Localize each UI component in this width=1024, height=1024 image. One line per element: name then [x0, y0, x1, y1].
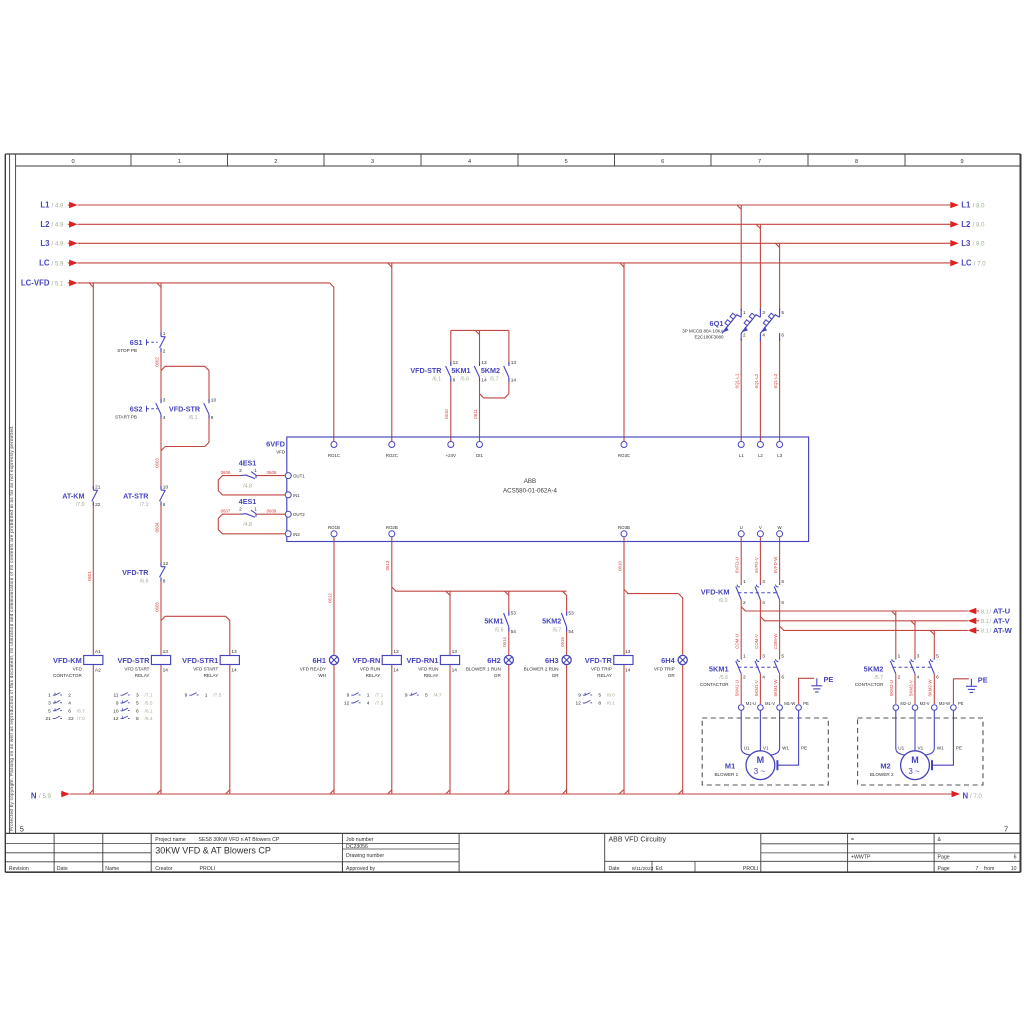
svg-text:L3: L3: [777, 453, 782, 458]
relay coil VFD-STR1: [220, 656, 239, 665]
svg-text:M1-V: M1-V: [765, 701, 775, 706]
wire LC-VFD to 6S1: [160, 283, 162, 336]
wire VFD-KM coil A2 to N: [92, 665, 94, 795]
wire rail L1: [78, 204, 951, 206]
svg-text:4: 4: [68, 701, 71, 707]
svg-text:/6.1: /6.1: [189, 415, 198, 421]
switch VFD-KM pole 1-2: [740, 584, 742, 586]
svg-text:E2C100F3080: E2C100F3080: [694, 335, 724, 340]
svg-text:6: 6: [211, 415, 214, 421]
wire junction to VFD-STR coil: [160, 621, 162, 656]
svg-text:Protected by copyright. Passin: Protected by copyright. Passing on as we…: [9, 425, 14, 831]
svg-text:A1: A1: [95, 649, 101, 655]
wire 6H4 to N: [682, 665, 684, 795]
svg-text:5.9: 5.9: [43, 794, 52, 800]
svg-text:Approved by: Approved by: [346, 866, 376, 872]
wire run-relay feeder rail: [392, 587, 396, 591]
wire rail L3: [78, 242, 951, 244]
junction LC-VFD to 6S1 branch: [157, 283, 161, 287]
wire parallel loop top to VFD-STR aux: [161, 366, 209, 402]
svg-text:7: 7: [1004, 825, 1008, 834]
svg-text:IN2: IN2: [293, 532, 300, 537]
svg-text:2: 2: [743, 333, 746, 339]
svg-text:9: 9: [405, 693, 408, 699]
pin L1 terminal: [738, 442, 744, 448]
svg-text:14: 14: [511, 377, 517, 383]
svg-text:3: 3: [163, 397, 166, 403]
svg-text:RO1B: RO1B: [328, 525, 340, 530]
wire RO2C from LC: [391, 263, 393, 441]
svg-text:Job number: Job number: [346, 837, 374, 843]
wire RO3C from LC: [623, 263, 625, 441]
svg-text:0601: 0601: [87, 571, 92, 581]
svg-text:/7.1: /7.1: [375, 693, 383, 699]
svg-text:SES8 30KW VFD n AT Blowers CP: SES8 30KW VFD n AT Blowers CP: [199, 837, 280, 843]
svg-text:N: N: [31, 792, 37, 801]
svg-text:L2: L2: [758, 453, 763, 458]
wire AT-V to 5KM2 contact: [914, 621, 916, 658]
svg-text:RO2B: RO2B: [386, 525, 398, 530]
svg-text:8.1: 8.1: [981, 609, 989, 615]
switch 6S2 start pushbutton: [160, 399, 162, 403]
svg-text:5: 5: [48, 708, 51, 714]
svg-text:13: 13: [231, 649, 237, 655]
svg-text:6VFD-V: 6VFD-V: [754, 557, 759, 573]
svg-text:10: 10: [163, 484, 169, 490]
svg-text:COM-V: COM-V: [754, 634, 759, 649]
switch 5KM2 pole 1-2: [895, 658, 897, 660]
wire 0603 loop to AT-STR: [160, 447, 162, 490]
svg-text:Project name: Project name: [155, 837, 186, 843]
svg-text:M2: M2: [880, 761, 890, 770]
svg-text:VFD: VFD: [276, 449, 285, 454]
svg-text:A2: A2: [95, 667, 101, 673]
svg-text:VFD-TR: VFD-TR: [122, 568, 149, 577]
svg-text:14: 14: [452, 667, 458, 673]
svg-text:/4.8: /4.8: [243, 484, 252, 490]
wire 6Q1-L2 rail to breaker: [759, 224, 761, 311]
svg-text:Creator: Creator: [155, 866, 173, 872]
svg-text:/7.1: /7.1: [140, 502, 149, 508]
svg-text:53: 53: [511, 611, 517, 617]
wire 0616 RO3B down: [623, 537, 625, 656]
svg-text:RELAY: RELAY: [424, 673, 439, 678]
wire motor M1 W1: [771, 710, 780, 755]
svg-text:RELAY: RELAY: [366, 673, 381, 678]
svg-text:M1-W: M1-W: [784, 701, 795, 706]
wire 0601 AT-KM to VFD-KM coil A1: [92, 503, 94, 656]
svg-text:6: 6: [781, 333, 784, 339]
node L1 right arrow: [950, 202, 959, 209]
svg-text:4: 4: [762, 600, 765, 606]
svg-text:8.0: 8.0: [976, 203, 985, 209]
wire 0604 AT-STR to VFD-TR contact: [160, 503, 162, 566]
wire AT-W line: [783, 629, 968, 631]
svg-text:VFD-STR: VFD-STR: [410, 366, 442, 375]
wire 0614 5KM1 54 to 6H2: [508, 628, 510, 656]
svg-text:0611: 0611: [473, 409, 478, 419]
svg-text:L2: L2: [961, 220, 971, 229]
wire 6VFD-U ABB U to VFD-KM contact: [740, 537, 742, 584]
wire branch RO3B to 6H4: [624, 589, 628, 593]
svg-text:9: 9: [578, 693, 581, 699]
svg-text:3 ~: 3 ~: [754, 767, 766, 776]
wire VFD-RN coil to N: [391, 665, 393, 795]
svg-text:54: 54: [568, 629, 574, 635]
pin RO2B terminal: [389, 531, 395, 537]
wire 4ES1 loop first: [256, 475, 285, 477]
motor M1 enclosure box: [702, 718, 828, 785]
svg-text:21: 21: [95, 484, 101, 490]
wire 6Q1-L3 breaker to ABB L3: [779, 339, 781, 442]
svg-text:4.9: 4.9: [55, 223, 64, 229]
svg-text:5: 5: [425, 693, 428, 699]
svg-text:VFD-KM: VFD-KM: [701, 588, 730, 597]
junction AT-U to 5KM2: [892, 611, 896, 615]
svg-text:1: 1: [898, 654, 901, 660]
svg-text:53: 53: [568, 611, 574, 617]
junction L2 to 6Q1: [756, 224, 760, 228]
junction N rail: [89, 790, 93, 794]
svg-text:6: 6: [68, 708, 71, 714]
wire motor M2 W1: [925, 710, 934, 755]
svg-text:6VFD-U: 6VFD-U: [735, 557, 740, 573]
svg-text:4: 4: [163, 415, 166, 421]
svg-text:5: 5: [598, 693, 601, 699]
wire 5KM1-W 5KM1 contact to terminal M1-W: [779, 674, 781, 704]
svg-text:U1: U1: [744, 746, 750, 751]
svg-text:0613: 0613: [385, 560, 390, 570]
svg-text:5KM1-V: 5KM1-V: [754, 680, 759, 696]
lamp 6H3: [562, 655, 571, 664]
svg-text:5: 5: [781, 579, 784, 585]
wire 5KM1-U 5KM1 contact to terminal M1-U: [740, 674, 742, 704]
wire DI1 to 5KM1 contact: [479, 379, 481, 398]
wire 5KM2 parallel branch: [508, 330, 510, 364]
svg-text:14: 14: [393, 667, 399, 673]
svg-text:6Q1-L1: 6Q1-L1: [735, 373, 740, 388]
svg-text:Revision: Revision: [9, 866, 29, 872]
svg-text:COM-U: COM-U: [735, 634, 740, 649]
svg-text:3: 3: [48, 701, 51, 707]
svg-text:ACS580-01-062A-4: ACS580-01-062A-4: [503, 488, 558, 495]
junction N rail: [505, 790, 509, 794]
svg-text:+24V: +24V: [446, 453, 456, 458]
switch 5KM2 53-54: [566, 612, 568, 616]
svg-text:COM-W: COM-W: [773, 633, 778, 650]
svg-text:/6.6: /6.6: [140, 578, 149, 584]
svg-text:LC-VFD: LC-VFD: [21, 279, 50, 288]
pin L2 terminal: [757, 442, 763, 448]
node terminals M1: [738, 705, 744, 711]
wire COM-U VFD-KM to 5KM1 contact: [740, 600, 742, 658]
wire PE1 to ground: [799, 678, 814, 704]
svg-text:8/11/2023: 8/11/2023: [632, 866, 654, 872]
junction L1 to 6Q1: [737, 205, 741, 209]
svg-text:4.9: 4.9: [55, 242, 64, 248]
svg-text:/6.1: /6.1: [607, 701, 615, 707]
svg-text:/5.6: /5.6: [719, 675, 728, 681]
switch VFD-KM pole 3-4: [759, 584, 761, 586]
svg-text:PE: PE: [978, 676, 988, 685]
junction N rail: [388, 790, 392, 794]
copyright margin strip: [9, 154, 11, 833]
wire 6H2 to N: [508, 665, 510, 795]
svg-text:6Q1: 6Q1: [710, 319, 724, 328]
svg-text:5: 5: [781, 654, 784, 660]
junction AT-V to 5KM2: [911, 621, 915, 625]
svg-text:14: 14: [481, 377, 487, 383]
svg-text:5: 5: [781, 310, 784, 316]
svg-text:M2-V: M2-V: [920, 701, 930, 706]
svg-text:CONTACTOR: CONTACTOR: [53, 673, 82, 678]
wire 0605 VFD-TR contact to junction: [160, 579, 162, 621]
svg-text:8.1: 8.1: [981, 629, 989, 635]
junction AT-U tap: [741, 607, 745, 611]
svg-text:M: M: [911, 755, 919, 765]
svg-text:9: 9: [347, 693, 350, 699]
wire motor M2 V1: [914, 710, 916, 751]
svg-text:BLOWER 1: BLOWER 1: [714, 772, 738, 777]
svg-text:/9.0: /9.0: [607, 693, 615, 699]
svg-text:ABB VFD Circuitry: ABB VFD Circuitry: [609, 837, 667, 844]
junction N rail: [157, 790, 161, 794]
svg-text:8.1: 8.1: [981, 619, 989, 625]
svg-text:1: 1: [178, 159, 181, 165]
relay coil VFD-TR: [614, 656, 633, 665]
svg-text:3: 3: [762, 654, 765, 660]
svg-text:3 ~: 3 ~: [908, 767, 920, 776]
svg-text:0612: 0612: [327, 593, 332, 603]
svg-text:6: 6: [1014, 855, 1017, 861]
junction AT-V tap: [760, 617, 764, 621]
wire AT-U line: [745, 610, 968, 612]
wire feeder to 5KM1 53 contact: [508, 591, 510, 614]
wire motor M2 U1: [896, 710, 905, 755]
svg-text:AT-STR: AT-STR: [123, 492, 149, 501]
svg-text:5KM2-V: 5KM2-V: [908, 680, 913, 696]
svg-text:/5.5: /5.5: [145, 701, 153, 707]
svg-text:7.0: 7.0: [974, 794, 983, 800]
svg-text:OR: OR: [668, 673, 676, 678]
svg-text:7.0: 7.0: [977, 261, 986, 267]
svg-text:/7.1: /7.1: [145, 693, 153, 699]
svg-text:Date: Date: [609, 866, 620, 872]
svg-text:6: 6: [781, 600, 784, 606]
svg-text:CONTACTOR: CONTACTOR: [700, 682, 729, 687]
junction N rail: [330, 790, 334, 794]
svg-text:14: 14: [625, 667, 631, 673]
wire 6Q1-L1 breaker to ABB L1: [740, 339, 742, 442]
svg-text:PROLI: PROLI: [200, 866, 216, 872]
svg-text:OUT2: OUT2: [293, 512, 305, 517]
switch 6Q1 pole 1: [740, 309, 742, 318]
svg-text:22: 22: [95, 502, 101, 508]
svg-text:2: 2: [743, 600, 746, 606]
wire feeder to VFD-RN1 coil: [449, 591, 451, 655]
wire 6VFD-V ABB V to VFD-KM contact: [759, 537, 761, 584]
svg-text:/5.7: /5.7: [553, 627, 562, 633]
svg-text:0608: 0608: [267, 470, 277, 475]
svg-text:3: 3: [762, 579, 765, 585]
svg-text:M: M: [757, 755, 765, 765]
junction L3 to 6Q1: [775, 243, 779, 247]
svg-text:4: 4: [762, 674, 765, 680]
svg-text:/6.1: /6.1: [145, 708, 153, 714]
svg-text:8.0: 8.0: [976, 223, 985, 229]
svg-text:/5.6: /5.6: [495, 627, 504, 633]
junction LC to RO3C: [620, 263, 624, 267]
svg-text:2: 2: [274, 159, 277, 165]
svg-text:12: 12: [576, 701, 582, 707]
svg-text:6VFD-W: 6VFD-W: [773, 556, 778, 574]
pin W terminal: [777, 531, 783, 537]
svg-text:5KM2: 5KM2: [481, 366, 500, 375]
svg-text:/4.8: /4.8: [243, 522, 252, 528]
svg-text:4: 4: [367, 701, 370, 707]
svg-text:/5.7: /5.7: [874, 675, 883, 681]
switch 5KM2 pole 3-4: [914, 658, 916, 660]
svg-text:5.9: 5.9: [55, 261, 64, 267]
svg-text:VFD TRIP: VFD TRIP: [654, 666, 675, 671]
svg-text:V: V: [759, 525, 762, 530]
junction N rail: [679, 790, 683, 794]
wire +24V contact to top rail: [450, 330, 452, 364]
svg-text:5: 5: [20, 825, 24, 834]
node L1 source arrow: [68, 204, 71, 206]
title block grid: [5, 832, 1020, 834]
svg-text:PE: PE: [803, 701, 809, 706]
wire 5KM1-V 5KM1 contact to terminal M1-V: [759, 674, 761, 704]
svg-text:RO2C: RO2C: [386, 453, 398, 458]
svg-text:DI1: DI1: [476, 453, 483, 458]
wire motor M2 PE lead: [932, 710, 953, 765]
wire 0615 5KM2 54 to 6H3: [566, 628, 568, 656]
svg-text:VFD-RN1: VFD-RN1: [406, 656, 438, 665]
svg-text:0616: 0616: [617, 561, 622, 571]
svg-text:5: 5: [936, 654, 939, 660]
pin RO2C terminal: [389, 442, 395, 448]
svg-text:CONTACTOR: CONTACTOR: [855, 682, 884, 687]
wire 6Q1-L3 rail to breaker: [779, 243, 781, 311]
wire 5KM2-V 5KM2 contact to terminal M2-V: [914, 674, 916, 704]
svg-text:4ES1: 4ES1: [239, 497, 257, 506]
switch 5KM1 53-54: [508, 612, 510, 616]
svg-text:0603: 0603: [154, 458, 159, 468]
svg-text:0602: 0602: [154, 357, 159, 367]
switch VFD-TR 12-8: [160, 563, 162, 567]
wire VFD-STR1 coil to N: [229, 665, 231, 795]
svg-text:6S2: 6S2: [130, 405, 143, 414]
switch 5KM1 pole 5-6: [779, 658, 781, 660]
svg-text:VFD START: VFD START: [193, 666, 218, 671]
svg-text:M2-U: M2-U: [900, 701, 910, 706]
svg-text:GR: GR: [552, 673, 560, 678]
ground PE1: [816, 678, 818, 686]
svg-text:2: 2: [898, 674, 901, 680]
pin RO1C terminal: [331, 442, 337, 448]
svg-text:RELAY: RELAY: [135, 673, 150, 678]
lamp 6H4: [678, 655, 687, 664]
svg-text:/6.7: /6.7: [77, 708, 85, 714]
column header band: [16, 165, 1021, 167]
switch AT-STR 10-6: [160, 486, 162, 490]
junction AT-W tap: [780, 626, 784, 630]
junction N rail: [619, 790, 623, 794]
svg-text:PROLI: PROLI: [743, 866, 759, 872]
switch 6Q1 pole 2: [759, 309, 761, 318]
svg-text:/5.6: /5.6: [460, 376, 469, 382]
svg-text:Page: Page: [938, 855, 950, 861]
svg-text:10: 10: [211, 397, 217, 403]
svg-text:5KM1-W: 5KM1-W: [773, 679, 778, 697]
wire 6Q1-L2 breaker to ABB L2: [759, 339, 761, 442]
svg-text:DC23056: DC23056: [346, 844, 368, 850]
motor M2 enclosure box: [858, 718, 983, 785]
svg-text:1: 1: [743, 579, 746, 585]
wire 4ES1 loop second: [256, 513, 285, 515]
svg-text:/7.5: /7.5: [213, 693, 221, 699]
node terminals M2: [893, 705, 899, 711]
svg-text:1: 1: [205, 693, 208, 699]
svg-text:RELAY: RELAY: [204, 673, 219, 678]
pin IN1 terminal: [285, 492, 291, 498]
svg-text:2: 2: [163, 349, 166, 355]
wire 6VFD-W ABB W to VFD-KM contact: [779, 537, 781, 584]
svg-text:6: 6: [661, 159, 664, 165]
pin IN2 terminal: [285, 531, 291, 537]
svg-text:/5.7: /5.7: [490, 376, 499, 382]
svg-text:=: =: [851, 837, 854, 843]
wire LC-VFD to AT-KM contact: [92, 283, 94, 489]
svg-text:4.9: 4.9: [55, 203, 64, 209]
wire motor M1 V1: [759, 710, 761, 751]
svg-text:/6.1: /6.1: [432, 376, 441, 382]
svg-text:L3: L3: [961, 239, 971, 248]
switch 6S1 stop pushbutton: [160, 333, 162, 337]
junction AT-W to 5KM2: [930, 630, 934, 634]
svg-text:PE: PE: [956, 746, 962, 751]
switch 6Q1 pole 3: [779, 309, 781, 318]
svg-text:VFD-STR1: VFD-STR1: [182, 656, 218, 665]
wire 0611 DI1 vertical: [479, 398, 481, 441]
svg-text:6: 6: [163, 502, 166, 508]
switch VFD-STR aux 10-6 seal-in: [208, 399, 210, 403]
wire 0602 6S1 to parallel loop: [160, 349, 162, 371]
svg-text:VFD-RN: VFD-RN: [352, 656, 380, 665]
svg-text:8: 8: [453, 377, 456, 383]
svg-text:OUT1: OUT1: [293, 474, 305, 479]
svg-text:M2-W: M2-W: [939, 701, 950, 706]
wire PE2 to ground: [953, 679, 968, 704]
svg-text:0610: 0610: [444, 409, 449, 419]
svg-text:6H3: 6H3: [545, 656, 559, 665]
lamp 6H1: [329, 655, 338, 664]
svg-text:VFD-STR: VFD-STR: [169, 405, 201, 414]
svg-text:54: 54: [511, 629, 517, 635]
pin RO1B terminal: [331, 531, 337, 537]
svg-text:6H1: 6H1: [312, 656, 326, 665]
svg-text:GR: GR: [494, 673, 502, 678]
svg-text:RELAY: RELAY: [597, 673, 612, 678]
svg-text:0605: 0605: [154, 602, 159, 612]
svg-text:/6.4: /6.4: [145, 716, 153, 722]
svg-text:0606: 0606: [221, 470, 231, 475]
pin RO3B terminal: [621, 531, 627, 537]
svg-text:BLOWER 1 RUN: BLOWER 1 RUN: [466, 666, 501, 671]
svg-text:START PB: START PB: [115, 414, 137, 419]
svg-text:3: 3: [762, 310, 765, 316]
